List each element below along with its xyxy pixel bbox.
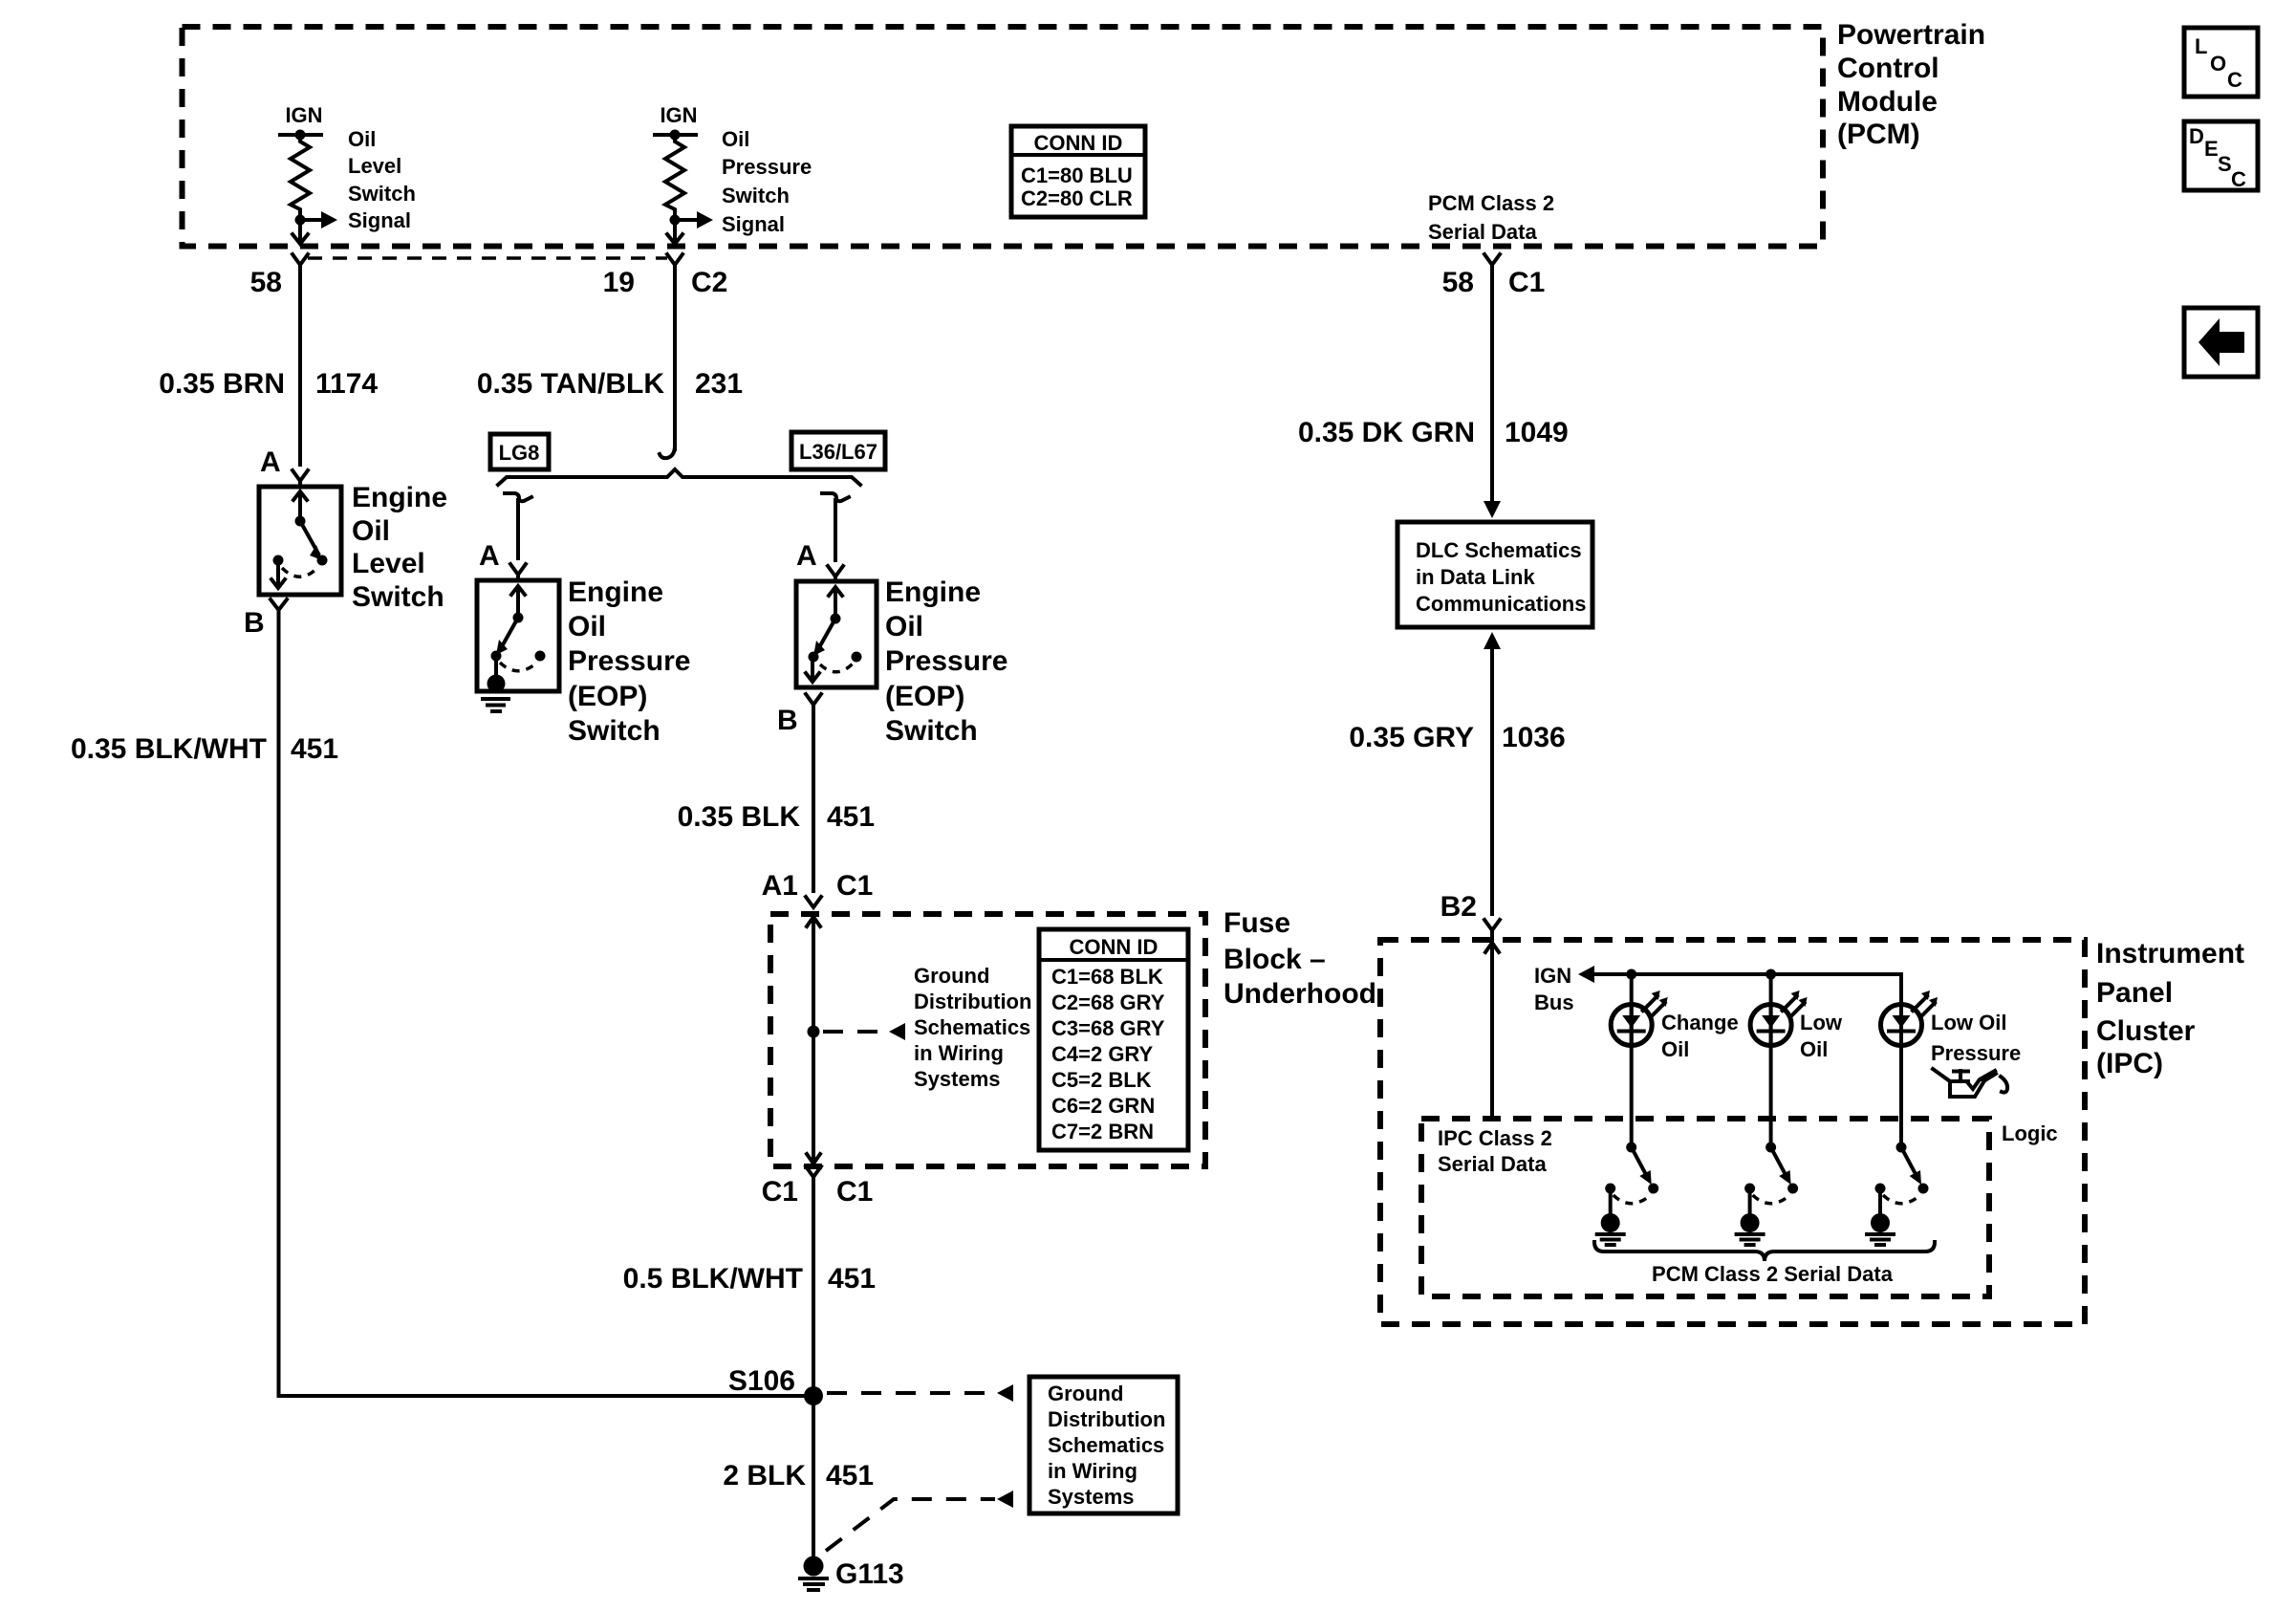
wire 451 0.35 BLK/WHT (left leg) — [71, 610, 338, 1396]
wire B2 into IPC — [1485, 943, 1499, 1119]
svg-text:Powertrain: Powertrain — [1837, 19, 1985, 51]
svg-text:S106: S106 — [728, 1365, 795, 1397]
IGN bus arrow — [1534, 964, 1901, 1014]
svg-text:S: S — [2218, 152, 2232, 176]
svg-text:C1: C1 — [836, 1176, 873, 1208]
Ground Distribution Schematics box — [1029, 1377, 1178, 1513]
svg-text:IGN: IGN — [1534, 964, 1571, 988]
DLC Schematics box — [1397, 522, 1592, 627]
svg-text:IPC Class 2: IPC Class 2 — [1438, 1126, 1552, 1150]
splice S106 — [728, 1365, 823, 1405]
svg-text:IGN: IGN — [285, 103, 322, 127]
wire LG8 branch — [479, 500, 526, 580]
PCM module dashed box — [183, 27, 1824, 247]
svg-text:Serial Data: Serial Data — [1438, 1152, 1547, 1176]
svg-text:B: B — [777, 705, 798, 736]
wire 451 0.35 BLK — [678, 705, 875, 891]
svg-text:C1: C1 — [1508, 267, 1545, 298]
brace PCM Class 2 Serial Data — [1594, 1242, 1935, 1286]
svg-text:A: A — [260, 446, 281, 478]
twisted lead symbol (LG8 branch) — [505, 493, 531, 501]
svg-text:Underhood: Underhood — [1224, 978, 1376, 1010]
svg-text:Level: Level — [348, 154, 401, 178]
CONN ID table (fuse block) — [1039, 929, 1188, 1150]
DESC legend box — [2184, 121, 2258, 191]
svg-text:Systems: Systems — [1048, 1485, 1135, 1509]
pin 58 connector (oil level) — [250, 254, 308, 298]
svg-text:1036: 1036 — [1502, 722, 1566, 753]
svg-text:(EOP): (EOP) — [568, 681, 647, 712]
svg-text:C2=68 GRY: C2=68 GRY — [1051, 991, 1165, 1014]
svg-text:in Wiring: in Wiring — [1048, 1459, 1137, 1483]
wire L36/L67 branch — [796, 500, 843, 581]
IPC logic dashed box — [1421, 1119, 2058, 1296]
LG8 tag box — [490, 434, 549, 469]
svg-text:Oil: Oil — [348, 127, 376, 151]
node IGN (oil level) — [280, 103, 323, 141]
node oil level switch signal + arrow — [295, 127, 416, 232]
svg-text:58: 58 — [250, 267, 282, 298]
PCM Class 2 Serial Data label (inside PCM) — [1428, 191, 1554, 244]
svg-text:451: 451 — [826, 1460, 874, 1491]
lamp Low Oil — [1750, 969, 1843, 1148]
Engine Oil Pressure EOP Switch (L36/L67) box — [796, 577, 1007, 747]
engine option brace — [498, 469, 860, 485]
svg-text:Panel: Panel — [2096, 977, 2173, 1009]
pin 58 / C1 connector (serial data) — [1442, 254, 1546, 298]
svg-text:0.35 BRN: 0.35 BRN — [159, 368, 285, 400]
switch Change Oil driver — [1597, 1143, 1659, 1246]
lamp Low Oil Pressure — [1881, 974, 2022, 1147]
svg-text:451: 451 — [291, 733, 338, 765]
svg-text:Logic: Logic — [2002, 1121, 2058, 1145]
svg-text:Schematics: Schematics — [1048, 1433, 1164, 1457]
Instrument Panel Cluster dashed box — [1380, 938, 2244, 1324]
Engine Oil Level Switch box — [259, 482, 447, 613]
svg-text:C2=80 CLR: C2=80 CLR — [1021, 186, 1133, 210]
svg-text:Engine: Engine — [352, 482, 447, 513]
dashed reference G113 to ground distribution — [826, 1491, 1013, 1551]
svg-text:0.5 BLK/WHT: 0.5 BLK/WHT — [623, 1263, 803, 1295]
Fuse Block Underhood dashed box — [770, 907, 1376, 1166]
splice to ground distribution (fuse block) — [808, 964, 1032, 1091]
svg-text:B: B — [244, 607, 265, 639]
resistor oil level switch pull-up — [291, 135, 310, 216]
node IGN (oil pressure) — [655, 103, 698, 141]
svg-text:451: 451 — [827, 801, 875, 833]
svg-text:C7=2 BRN: C7=2 BRN — [1051, 1120, 1154, 1143]
svg-text:Ground: Ground — [914, 964, 989, 988]
svg-text:C: C — [2227, 68, 2242, 92]
svg-text:58: 58 — [1442, 267, 1474, 298]
svg-text:231: 231 — [695, 368, 743, 400]
svg-text:in Wiring: in Wiring — [914, 1041, 1004, 1065]
svg-text:Bus: Bus — [1534, 991, 1574, 1014]
svg-text:PCM Class 2 Serial Data: PCM Class 2 Serial Data — [1652, 1262, 1894, 1286]
svg-text:O: O — [2210, 52, 2226, 76]
twisted lead symbol (L36/L67 branch) — [822, 493, 849, 501]
svg-text:in Data Link: in Data Link — [1416, 565, 1535, 589]
wire 1049 0.35 DK GRN — [1298, 265, 1569, 518]
svg-text:Switch: Switch — [885, 715, 978, 747]
svg-text:C1=68 BLK: C1=68 BLK — [1051, 965, 1163, 989]
in-line connector C2 dashed link — [308, 256, 667, 260]
wire joining left leg to S106 — [279, 1394, 814, 1398]
svg-text:Oil: Oil — [568, 611, 606, 642]
svg-text:Switch: Switch — [722, 184, 790, 207]
svg-text:PCM Class 2: PCM Class 2 — [1428, 191, 1554, 215]
pin B connector (oil level switch) — [244, 599, 287, 639]
svg-text:C6=2 GRN: C6=2 GRN — [1051, 1094, 1155, 1118]
wire 451 2 BLK — [723, 1396, 874, 1557]
svg-text:451: 451 — [828, 1263, 876, 1295]
pin B2 connector (IPC) — [1440, 891, 1500, 940]
svg-text:Engine: Engine — [885, 577, 981, 608]
EOP switch (L36/L67) contacts — [806, 587, 862, 682]
back-arrow legend box — [2184, 308, 2258, 377]
svg-text:E: E — [2204, 137, 2219, 161]
svg-text:Ground: Ground — [1048, 1382, 1123, 1405]
svg-text:Cluster: Cluster — [2096, 1015, 2196, 1047]
svg-text:C5=2 BLK: C5=2 BLK — [1051, 1068, 1152, 1092]
svg-text:Oil: Oil — [1661, 1037, 1689, 1061]
switch Low Oil driver — [1737, 1143, 1799, 1246]
svg-text:Change: Change — [1661, 1011, 1739, 1034]
EOP switch (LG8) contacts — [491, 586, 546, 679]
node oil pressure switch signal + arrow — [670, 127, 812, 236]
LOC legend box — [2184, 28, 2258, 97]
wire 1174 0.35 BRN — [159, 265, 378, 465]
oil level switch contacts — [271, 491, 328, 588]
splice hook at engine branch — [660, 446, 675, 458]
svg-text:C1=80 BLU: C1=80 BLU — [1021, 163, 1133, 187]
svg-text:0.35 TAN/BLK: 0.35 TAN/BLK — [477, 368, 664, 400]
pin A connector (oil level switch) — [260, 446, 308, 487]
svg-text:Fuse: Fuse — [1224, 907, 1290, 939]
svg-text:CONN ID: CONN ID — [1034, 131, 1123, 155]
svg-text:Oil: Oil — [352, 515, 390, 547]
svg-text:1174: 1174 — [315, 368, 378, 400]
oil can icon — [1933, 1069, 2007, 1097]
svg-text:A: A — [479, 540, 500, 572]
svg-text:19: 19 — [603, 267, 635, 298]
svg-text:0.35 DK GRN: 0.35 DK GRN — [1298, 417, 1475, 448]
svg-text:0.35 BLK/WHT: 0.35 BLK/WHT — [71, 733, 267, 765]
svg-text:C1: C1 — [836, 870, 873, 902]
CONN ID table (PCM) — [1011, 126, 1145, 217]
wire 231 0.35 TAN/BLK — [477, 265, 743, 449]
svg-text:Pressure: Pressure — [1931, 1041, 2021, 1065]
svg-text:G113: G113 — [835, 1558, 904, 1590]
wire to PCM pin 58 (left) — [292, 220, 308, 244]
svg-text:IGN: IGN — [660, 103, 697, 127]
svg-text:C3=68 GRY: C3=68 GRY — [1051, 1016, 1165, 1040]
svg-text:A: A — [796, 540, 817, 572]
PCM label text — [1837, 19, 1985, 150]
svg-text:0.35 GRY: 0.35 GRY — [1349, 722, 1474, 753]
pin B connector (EOP switch) — [777, 694, 821, 736]
svg-text:DLC Schematics: DLC Schematics — [1416, 538, 1582, 562]
svg-text:Instrument: Instrument — [2096, 938, 2244, 969]
pin C1 / C1 connector (below fuse block) — [762, 1166, 874, 1208]
svg-text:LG8: LG8 — [499, 441, 540, 465]
svg-text:Oil: Oil — [722, 127, 749, 151]
svg-text:Pressure: Pressure — [568, 645, 690, 677]
svg-text:2 BLK: 2 BLK — [723, 1460, 806, 1491]
svg-text:1049: 1049 — [1505, 417, 1569, 448]
svg-text:Serial Data: Serial Data — [1428, 220, 1537, 244]
svg-text:Schematics: Schematics — [914, 1015, 1030, 1039]
svg-text:Oil: Oil — [885, 611, 923, 642]
svg-text:Signal: Signal — [722, 212, 785, 236]
svg-text:Block –: Block – — [1224, 944, 1326, 975]
svg-text:L: L — [2195, 34, 2207, 58]
svg-text:Oil: Oil — [1800, 1037, 1828, 1061]
wire 1036 0.35 GRY — [1349, 632, 1565, 914]
svg-text:Level: Level — [352, 548, 425, 579]
svg-text:Engine: Engine — [568, 577, 663, 608]
svg-text:Low: Low — [1800, 1011, 1843, 1034]
svg-text:(PCM): (PCM) — [1837, 119, 1920, 150]
svg-text:B2: B2 — [1440, 891, 1477, 923]
lamp Change Oil — [1611, 969, 1738, 1148]
svg-text:(EOP): (EOP) — [885, 681, 964, 712]
L36/L67 tag box — [791, 432, 885, 469]
svg-text:Distribution: Distribution — [914, 990, 1031, 1013]
svg-text:C2: C2 — [691, 267, 727, 298]
svg-text:Distribution: Distribution — [1048, 1407, 1165, 1431]
svg-text:A1: A1 — [762, 870, 798, 902]
svg-text:Communications: Communications — [1416, 592, 1586, 616]
switch Low Oil Pressure driver — [1867, 1143, 1929, 1246]
svg-text:(IPC): (IPC) — [2096, 1048, 2163, 1079]
svg-text:Signal: Signal — [348, 208, 411, 232]
svg-text:Switch: Switch — [352, 581, 444, 613]
wire through fuse block — [807, 916, 820, 1165]
svg-text:Module: Module — [1837, 86, 1938, 118]
svg-text:CONN ID: CONN ID — [1070, 935, 1159, 959]
dashed reference S106 to ground distribution — [827, 1384, 1013, 1402]
wire to PCM pin 19 — [667, 220, 682, 244]
svg-text:0.35 BLK: 0.35 BLK — [678, 801, 801, 833]
resistor oil pressure switch pull-up — [665, 135, 684, 216]
svg-text:C4=2 GRY: C4=2 GRY — [1051, 1042, 1154, 1066]
pin A1 / C1 connector (fuse block) — [762, 870, 874, 907]
ground at EOP switch (LG8) — [483, 675, 509, 712]
svg-text:L36/L67: L36/L67 — [799, 440, 877, 464]
wire 451 0.5 BLK/WHT — [623, 1177, 876, 1396]
svg-text:Switch: Switch — [348, 182, 416, 206]
ground G113 — [800, 1557, 904, 1591]
svg-text:Pressure: Pressure — [885, 645, 1007, 677]
svg-text:D: D — [2189, 124, 2204, 148]
svg-text:Switch: Switch — [568, 715, 661, 747]
svg-text:Low Oil: Low Oil — [1931, 1011, 2006, 1034]
svg-text:Control: Control — [1837, 53, 1939, 84]
svg-text:Systems: Systems — [914, 1067, 1001, 1091]
svg-text:Pressure: Pressure — [722, 155, 812, 179]
svg-text:C: C — [2231, 167, 2246, 191]
Engine Oil Pressure EOP Switch (LG8) box — [477, 577, 690, 747]
pin 19 / C2 connector (oil pressure) — [603, 254, 728, 298]
svg-text:C1: C1 — [762, 1176, 798, 1208]
